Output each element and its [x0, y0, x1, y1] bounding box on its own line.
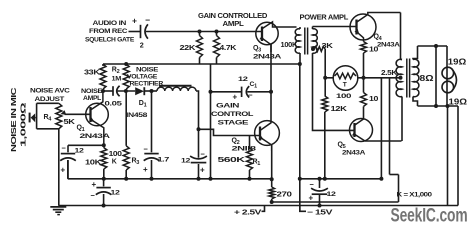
svg-text:−: −	[310, 180, 315, 189]
svg-text:12: 12	[181, 158, 191, 165]
inductor (choke)	[157, 87, 196, 91]
wire Q4 collector down	[400, 13, 402, 60]
svg-text:+: +	[143, 165, 148, 174]
capacitor 12 (Q1 emitter bypass)	[67, 145, 69, 152]
wire Q5 emitter	[365, 140, 402, 142]
wire stair jog	[390, 174, 399, 176]
svg-text:+: +	[200, 166, 205, 175]
wire 33K top corner	[102, 64, 104, 66]
svg-text:10: 10	[369, 96, 379, 103]
svg-text:T: T	[343, 82, 347, 89]
svg-text:5K: 5K	[64, 119, 75, 126]
node thermistor right	[362, 76, 366, 80]
svg-text:+: +	[92, 180, 97, 189]
wire R4 bottom	[37, 128, 59, 130]
wire Q2 emitter to rail	[271, 145, 273, 180]
svg-text:1,000Ω: 1,000Ω	[21, 102, 28, 147]
wire ground bus	[58, 205, 458, 207]
node phones top a	[434, 44, 438, 48]
wire output return left	[447, 106, 449, 206]
node phones bottom b	[446, 104, 450, 108]
microphone MIC	[29, 113, 31, 123]
wire thermistor left stub	[325, 77, 333, 79]
wire C1 right	[247, 91, 271, 93]
svg-text:2N43A: 2N43A	[80, 133, 111, 140]
resistor 3K	[314, 47, 326, 52]
wire rectifier to Q2 base	[199, 129, 261, 135]
svg-text:FROM REC: FROM REC	[89, 28, 127, 35]
node 33K bottom / Q1 collector	[101, 89, 105, 93]
svg-text:GAIN: GAIN	[216, 103, 240, 110]
svg-text:+ 2.5V: + 2.5V	[234, 208, 262, 217]
transformer T1 core	[304, 28, 306, 55]
svg-text:12: 12	[238, 76, 248, 83]
vertical label NOISE IN MIC	[11, 87, 18, 152]
resistor R2 1M	[123, 64, 129, 89]
wire rect rail c	[152, 90, 158, 92]
wire thermistor right stub	[358, 77, 364, 79]
wire R4 wiper to Q1 base	[65, 113, 91, 115]
svg-text:270: 270	[277, 192, 293, 199]
wire stair A	[380, 78, 382, 179]
wire cap12L top	[68, 144, 104, 146]
svg-text:2: 2	[140, 41, 144, 50]
resistor 270	[271, 179, 273, 187]
svg-text:GAIN CONTROLLED: GAIN CONTROLLED	[198, 13, 267, 20]
wire main top rail	[146, 31, 262, 33]
svg-text:+: +	[309, 194, 314, 203]
transformer T2 secondary	[413, 46, 418, 60]
svg-text:K: K	[112, 159, 117, 166]
svg-text:CONTROL: CONTROL	[211, 111, 253, 118]
svg-text:12: 12	[75, 148, 85, 155]
node Q2 emitter rail end	[270, 177, 274, 181]
wire rect rail b	[118, 90, 136, 92]
svg-text:12K: 12K	[331, 106, 347, 113]
wire stair C	[398, 175, 400, 203]
resistor 33K	[100, 64, 106, 89]
capacitor 0.05	[112, 86, 114, 96]
node 1.7 bottom	[150, 177, 154, 181]
transformer T2 primary	[401, 59, 403, 61]
svg-text:−: −	[145, 15, 150, 25]
node 4.7K top	[215, 30, 219, 34]
resistor 10 upper	[361, 42, 367, 54]
svg-text:− 15V: − 15V	[307, 208, 333, 217]
svg-text:AUDIO IN: AUDIO IN	[93, 20, 127, 27]
resistor 10K	[103, 145, 105, 147]
svg-text:AMPL: AMPL	[83, 95, 101, 102]
node T1 primary bottom	[298, 62, 302, 66]
svg-text:2N43A: 2N43A	[377, 42, 400, 49]
diode D1 1N458	[135, 87, 144, 95]
svg-text:19Ω: 19Ω	[448, 58, 467, 67]
transformer T1 secondary	[312, 27, 314, 30]
capacitor 12 (rectifier filter)	[191, 162, 207, 164]
transformer T2 core	[406, 59, 408, 98]
resistor R1 560K	[249, 136, 251, 149]
transistor Q5	[350, 119, 373, 142]
svg-text:4.7K: 4.7K	[220, 45, 237, 52]
svg-text:NOISE AVC: NOISE AVC	[30, 88, 70, 95]
svg-text:SeekIC.com: SeekIC.com	[391, 206, 468, 227]
wire phones top	[418, 45, 448, 47]
svg-text:8Ω: 8Ω	[420, 74, 435, 83]
node -15V riser	[298, 177, 302, 181]
svg-text:10K: 10K	[85, 160, 101, 167]
earphone 19 ohm lower	[442, 81, 454, 93]
node 10K bottom	[102, 177, 106, 181]
node C1 left	[209, 90, 213, 94]
earphone band arc	[452, 69, 457, 92]
node Q1 emitter junction	[102, 143, 106, 147]
wire phones right vertical	[446, 46, 448, 106]
choke core bar	[159, 85, 192, 87]
node thermistor left	[323, 76, 327, 80]
svg-text:ADJUST: ADJUST	[35, 96, 65, 103]
svg-text:2N43A: 2N43A	[342, 150, 365, 157]
svg-text:POWER AMPL: POWER AMPL	[300, 15, 350, 22]
node 210 bottom	[209, 177, 213, 181]
svg-text:+: +	[61, 166, 66, 175]
wire into cap 2	[129, 31, 141, 33]
transistor Q3	[256, 22, 278, 44]
wire phones bottom	[418, 105, 459, 107]
ground symbol	[50, 206, 66, 208]
svg-text:K = X1,000: K = X1,000	[397, 192, 433, 199]
wire -15V rail	[300, 178, 382, 180]
resistor R3 wire from rectifier node	[125, 91, 127, 146]
node 22K top	[198, 30, 202, 34]
node 270 bottom	[270, 200, 274, 204]
svg-text:IN458: IN458	[126, 112, 148, 119]
svg-text:2N43A: 2N43A	[253, 54, 282, 61]
resistor 10 lower	[363, 78, 365, 93]
wire Q3 emitter down	[270, 45, 272, 122]
vertical label 1,000 ohm	[21, 102, 28, 147]
svg-text:12: 12	[111, 190, 121, 197]
node 12bot bottom	[102, 204, 106, 208]
wire R4 top	[37, 102, 59, 104]
svg-text:+: +	[233, 93, 238, 102]
wire C1 left	[211, 91, 242, 93]
svg-text:NOISE IN MIC: NOISE IN MIC	[11, 87, 18, 152]
wire mic to R4 top/bottom	[36, 103, 38, 129]
label -15V	[300, 206, 306, 212]
node R3 bottom	[124, 177, 128, 181]
wire 3K to thermistor	[324, 49, 326, 96]
svg-text:−: −	[62, 144, 67, 153]
wire T1 secondary top to Q4 base	[313, 26, 357, 28]
svg-text:0.05: 0.05	[105, 101, 123, 108]
capacitor C1 12uF	[241, 87, 243, 97]
node phones bottom a	[434, 104, 438, 108]
node cap 12neg top	[318, 177, 322, 181]
svg-text:19Ω: 19Ω	[449, 98, 468, 107]
resistor 12K	[322, 96, 328, 112]
wire cap12L corner	[67, 160, 69, 179]
svg-text:+: +	[132, 16, 137, 26]
wire bias return rail (left bus)	[68, 178, 272, 180]
svg-text:1.7: 1.7	[158, 157, 170, 164]
wire output return right	[457, 106, 459, 206]
wire stair B	[389, 78, 391, 175]
svg-text:AMPL: AMPL	[223, 21, 245, 28]
wire phones left vertical	[435, 46, 437, 106]
wire +2.5V feedback line	[272, 201, 399, 203]
capacitor 12 (-15V filter)	[319, 179, 321, 188]
resistor 4.7K	[214, 36, 220, 58]
node R1 bottom	[248, 177, 252, 181]
R4 wiper arrow	[60, 110, 66, 114]
node T2 primary tap	[399, 76, 403, 80]
svg-text:NOISE: NOISE	[81, 88, 103, 95]
capacitor 2 (audio coupling)	[140, 25, 142, 38]
svg-text:2.5K: 2.5K	[381, 70, 397, 77]
svg-text:560K: 560K	[218, 157, 245, 164]
transistor Q1	[86, 103, 109, 126]
svg-text:10: 10	[369, 47, 379, 54]
node R2 bottom	[124, 89, 128, 93]
transformer T1 primary	[299, 27, 301, 29]
svg-text:22K: 22K	[180, 45, 196, 52]
svg-text:3K: 3K	[322, 43, 333, 50]
capacitor 1.7	[151, 91, 153, 152]
transistor Q4	[350, 14, 376, 40]
thermistor T 100	[333, 66, 358, 91]
node stair A bus	[379, 177, 383, 181]
wire 210 vertical	[210, 64, 212, 179]
svg-text:STAGE: STAGE	[218, 120, 250, 127]
potentiometer R4	[56, 103, 62, 129]
capacitor 12 (output bypass)	[103, 179, 105, 187]
svg-text:100: 100	[109, 151, 122, 158]
svg-text:33K: 33K	[84, 70, 100, 77]
wire rect rail a	[103, 90, 113, 92]
node 3K tap	[311, 47, 315, 51]
svg-text:100: 100	[336, 93, 352, 100]
wire bias rail	[103, 63, 300, 65]
node 12 bottom	[197, 177, 201, 181]
svg-text:−: −	[201, 150, 206, 159]
earphone 19 ohm upper	[442, 67, 454, 79]
transistor Q2	[255, 121, 280, 146]
node R2 top	[124, 62, 128, 66]
node D1 output	[150, 89, 154, 93]
wire choke out corner	[196, 91, 199, 158]
wire 2.5K node line	[364, 77, 401, 79]
wire T1 primary bottom to -15V	[299, 64, 301, 212]
svg-text:−: −	[144, 145, 149, 154]
svg-text:1M: 1M	[112, 76, 122, 83]
resistor R3 100K	[123, 146, 129, 170]
node choke/Q2 branch	[197, 127, 201, 131]
svg-text:2NII8: 2NII8	[232, 146, 257, 153]
svg-text:SQUELCH GATE: SQUELCH GATE	[85, 37, 135, 44]
svg-text:RECTIFIER: RECTIFIER	[130, 80, 164, 87]
svg-text:−: −	[91, 191, 96, 200]
resistor 22K	[197, 36, 203, 58]
svg-text:NOISE: NOISE	[136, 67, 159, 74]
svg-text:12: 12	[327, 191, 337, 198]
node 12neg bottom	[318, 204, 322, 208]
node C1 right / Q3 emitter	[269, 90, 273, 94]
wire R4 to ground	[58, 129, 60, 206]
